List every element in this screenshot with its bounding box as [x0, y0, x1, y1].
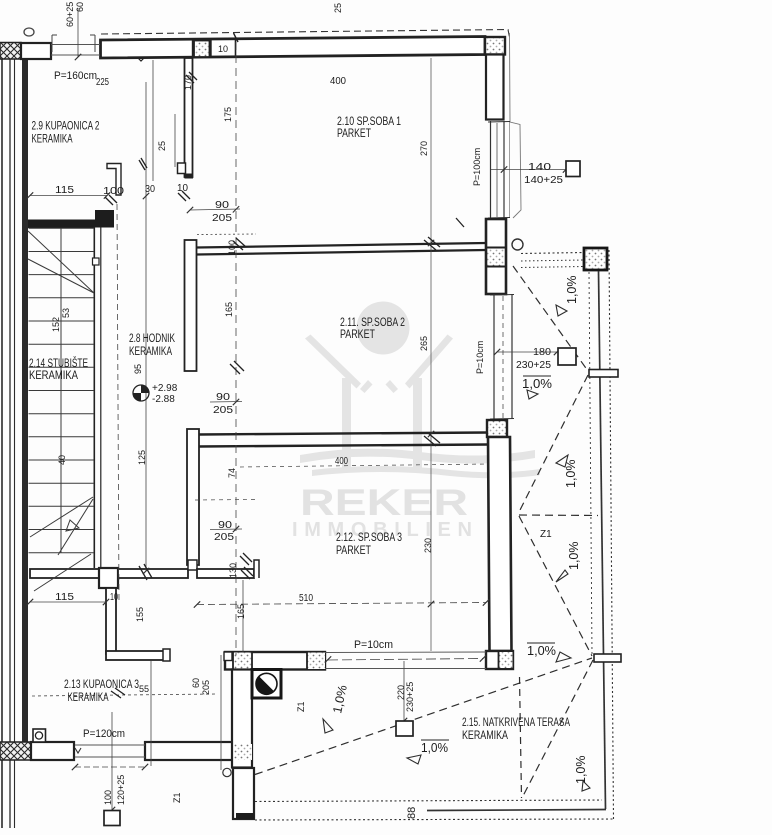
svg-text:165: 165 [236, 604, 246, 619]
svg-text:1,0%: 1,0% [565, 276, 579, 305]
svg-text:90: 90 [218, 520, 233, 531]
svg-text:120+25: 120+25 [116, 775, 126, 805]
svg-text:1,0%: 1,0% [527, 644, 556, 658]
svg-text:25: 25 [157, 141, 167, 151]
svg-text:140+25: 140+25 [524, 175, 563, 186]
svg-text:74: 74 [227, 468, 237, 478]
svg-text:90: 90 [216, 392, 231, 403]
svg-text:-2.88: -2.88 [152, 394, 175, 405]
svg-text:510: 510 [299, 593, 313, 604]
svg-text:+2.98: +2.98 [152, 383, 178, 394]
svg-text:KERAMIKA: KERAMIKA [32, 134, 73, 146]
svg-text:60: 60 [191, 678, 201, 688]
svg-text:130: 130 [228, 563, 238, 578]
svg-text:400: 400 [335, 456, 348, 467]
svg-text:205: 205 [212, 213, 233, 224]
svg-text:55: 55 [139, 684, 149, 694]
svg-text:P=10cm: P=10cm [354, 639, 393, 651]
svg-text:265: 265 [419, 336, 429, 351]
svg-text:REKER: REKER [300, 482, 468, 523]
svg-text:1,0%: 1,0% [421, 741, 448, 755]
svg-text:10: 10 [110, 592, 118, 603]
svg-text:90: 90 [215, 200, 230, 211]
svg-text:P=100cm: P=100cm [472, 148, 482, 186]
svg-text:100: 100 [103, 186, 125, 197]
svg-text:140: 140 [528, 162, 552, 173]
svg-text:205: 205 [201, 680, 211, 695]
svg-text:95: 95 [133, 364, 143, 374]
svg-text:100: 100 [227, 240, 237, 255]
svg-text:Z1: Z1 [540, 529, 552, 540]
svg-text:Z1: Z1 [296, 701, 306, 712]
svg-text:PARKET: PARKET [337, 128, 371, 140]
svg-text:1,0%: 1,0% [567, 542, 581, 571]
svg-text:115: 115 [55, 185, 75, 196]
svg-text:P=160cm: P=160cm [54, 70, 97, 82]
svg-text:Z1: Z1 [172, 792, 182, 803]
svg-text:165: 165 [224, 302, 234, 317]
svg-text:30: 30 [145, 184, 155, 195]
svg-text:230+25: 230+25 [516, 360, 551, 371]
svg-text:88: 88 [406, 807, 418, 819]
svg-text:KERAMIKA: KERAMIKA [462, 730, 508, 742]
svg-text:175: 175 [223, 107, 233, 122]
svg-text:P=120cm: P=120cm [83, 728, 125, 740]
svg-text:100: 100 [103, 790, 113, 805]
svg-text:2.10 SP.SOBA 1: 2.10 SP.SOBA 1 [337, 116, 401, 128]
svg-text:152: 152 [51, 317, 61, 332]
svg-text:230: 230 [423, 538, 433, 553]
svg-text:P=10cm: P=10cm [475, 341, 485, 374]
svg-text:2.8 HODNIK: 2.8 HODNIK [129, 333, 175, 345]
svg-text:225: 225 [96, 77, 109, 88]
svg-text:53: 53 [61, 308, 71, 318]
svg-text:115: 115 [55, 592, 75, 603]
svg-text:PARKET: PARKET [340, 329, 375, 341]
svg-text:10: 10 [218, 44, 228, 54]
svg-text:1,0%: 1,0% [522, 377, 552, 391]
svg-text:2.9 KUPAONICA 2: 2.9 KUPAONICA 2 [32, 121, 100, 133]
svg-text:KERAMIKA: KERAMIKA [29, 370, 78, 382]
svg-text:125: 125 [137, 450, 147, 465]
svg-text:400: 400 [330, 76, 346, 87]
svg-text:180: 180 [533, 347, 551, 358]
svg-text:205: 205 [213, 405, 234, 416]
svg-text:KERAMIKA: KERAMIKA [68, 692, 109, 704]
svg-text:270: 270 [419, 141, 429, 156]
svg-text:2.14 STUBIŠTE: 2.14 STUBIŠTE [29, 357, 88, 370]
svg-text:KERAMIKA: KERAMIKA [129, 346, 172, 358]
svg-text:60: 60 [75, 2, 85, 12]
svg-text:2.13 KUPAONICA 3: 2.13 KUPAONICA 3 [64, 679, 139, 691]
svg-text:2.15. NATKRIVENA TERASA: 2.15. NATKRIVENA TERASA [462, 717, 570, 729]
svg-text:PARKET: PARKET [336, 545, 371, 557]
svg-text:40: 40 [57, 455, 67, 465]
svg-text:60+25: 60+25 [65, 2, 75, 27]
svg-text:2.12. SP.SOBA 3: 2.12. SP.SOBA 3 [336, 532, 402, 544]
svg-text:155: 155 [135, 607, 145, 622]
svg-text:2.11. SP.SOBA 2: 2.11. SP.SOBA 2 [340, 317, 405, 329]
svg-text:25: 25 [333, 3, 343, 13]
svg-text:205: 205 [214, 532, 235, 543]
svg-text:230+25: 230+25 [405, 682, 415, 712]
svg-text:1,0%: 1,0% [574, 756, 588, 785]
